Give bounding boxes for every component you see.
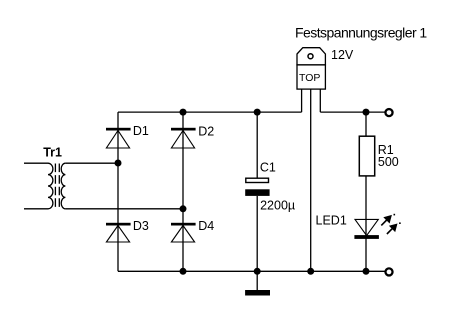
wire transformer secondary bottom lead <box>65 208 183 210</box>
terminal output minus <box>385 268 392 275</box>
wire left diode column <box>117 112 119 271</box>
resistor R1 <box>359 136 374 176</box>
node junction dot transformer bottom lead to right column <box>180 205 187 212</box>
wire primary bottom lead <box>24 208 48 210</box>
pin 2 middle <box>310 89 312 271</box>
node junction dot C1 to top rail <box>254 109 261 116</box>
node junction dot regulator pin2 to bottom rail <box>307 268 314 275</box>
pin 3 right <box>319 89 321 112</box>
regulator mounting hole <box>308 54 313 59</box>
wire ground stub <box>256 271 258 290</box>
wire top rail right segment <box>320 111 385 113</box>
svg-text:500: 500 <box>378 155 399 169</box>
regulator body <box>297 65 325 89</box>
transformer Tr1 <box>24 163 65 209</box>
wire R1 to LED <box>365 176 367 271</box>
capacitor C1 <box>245 112 269 271</box>
node junction dot LED to bottom rail <box>363 268 370 275</box>
node junction dot transformer top lead to left column <box>115 160 122 167</box>
wire top rail left segment <box>118 111 302 113</box>
svg-text:D2: D2 <box>198 124 214 138</box>
svg-text:Tr1: Tr1 <box>43 146 62 160</box>
primary winding <box>48 163 53 209</box>
voltage regulator U1 TOP package <box>297 48 325 272</box>
diode D2 <box>171 128 196 148</box>
ground <box>245 271 270 295</box>
LED arrow 1 <box>381 214 395 226</box>
node junction dot C1 ground to bottom rail <box>254 268 261 275</box>
wire C1 bottom <box>256 196 258 271</box>
secondary winding <box>61 163 65 209</box>
LED arrow 2 <box>387 222 401 234</box>
wire primary top lead <box>24 162 48 164</box>
node junction dot D2 column to top rail <box>180 109 187 116</box>
regulator tab <box>297 48 325 65</box>
C1 minus plate <box>245 189 269 196</box>
svg-text:D3: D3 <box>133 219 149 233</box>
LED LED1 <box>354 214 400 239</box>
wire right diode column <box>182 112 184 271</box>
wire C1 top <box>256 112 258 178</box>
node junction dot R1 to top rail <box>363 109 370 116</box>
core line left <box>54 164 56 210</box>
svg-text:TOP: TOP <box>299 72 320 84</box>
wire bottom rail <box>118 270 385 272</box>
svg-text:LED1: LED1 <box>316 214 347 228</box>
terminal output plus <box>385 109 392 116</box>
diode D3 <box>106 223 131 242</box>
wire transformer secondary top lead <box>65 162 118 164</box>
diode D4 <box>171 223 196 242</box>
wire R1 top <box>365 112 367 136</box>
node junction dot D4 column to bottom rail <box>180 268 187 275</box>
pin 1 left <box>301 89 303 112</box>
svg-text:12V: 12V <box>331 48 354 62</box>
diode D1 <box>106 128 131 148</box>
C1 plus plate <box>246 178 269 182</box>
svg-text:C1: C1 <box>260 160 276 174</box>
core line right <box>58 164 60 210</box>
svg-text:D1: D1 <box>133 124 149 138</box>
svg-text:D4: D4 <box>198 219 214 233</box>
svg-text:2200µ: 2200µ <box>260 198 295 212</box>
svg-text:Festspannungsregler 1: Festspannungsregler 1 <box>295 25 427 41</box>
